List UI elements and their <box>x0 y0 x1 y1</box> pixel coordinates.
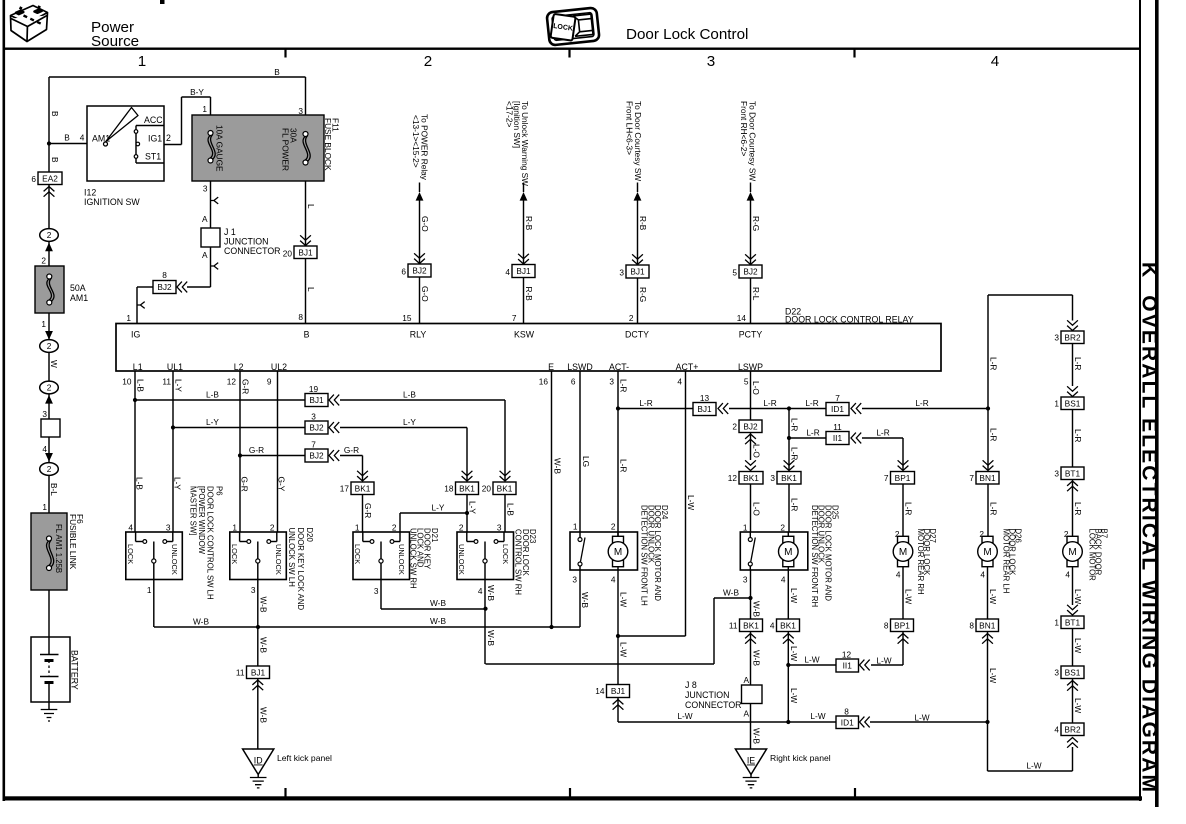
svg-text:L-Y: L-Y <box>206 417 219 427</box>
svg-text:LOCK: LOCK <box>353 544 362 564</box>
svg-text:BJ2: BJ2 <box>743 421 758 431</box>
svg-text:AM1: AM1 <box>70 293 88 303</box>
svg-text:BJ1: BJ1 <box>298 247 313 257</box>
svg-text:2: 2 <box>270 523 275 533</box>
svg-text:L-W: L-W <box>914 713 929 723</box>
svg-text:BJ1: BJ1 <box>309 395 324 405</box>
svg-text:L-W: L-W <box>1073 638 1083 653</box>
svg-text:AM1: AM1 <box>92 134 110 144</box>
svg-text:L-Y: L-Y <box>432 503 445 513</box>
svg-text:L-R: L-R <box>1073 502 1083 515</box>
svg-text:DOOR LOCK CONTROL RELAY: DOOR LOCK CONTROL RELAY <box>785 314 914 324</box>
svg-text:CONNECTOR: CONNECTOR <box>224 246 281 256</box>
svg-text:CONNECTOR: CONNECTOR <box>685 700 742 710</box>
svg-text:BT1: BT1 <box>1065 617 1081 627</box>
svg-text:3: 3 <box>374 586 379 596</box>
svg-text:BJ2: BJ2 <box>743 267 758 277</box>
svg-text:2: 2 <box>47 230 52 240</box>
svg-text:DCTY: DCTY <box>625 330 649 340</box>
svg-text:7: 7 <box>969 473 974 483</box>
svg-text:BJ1: BJ1 <box>611 686 626 696</box>
svg-text:1: 1 <box>232 523 237 533</box>
svg-text:4: 4 <box>770 621 775 631</box>
svg-text:1: 1 <box>202 104 207 114</box>
svg-text:G-R: G-R <box>344 445 359 455</box>
svg-text:JUNCTION: JUNCTION <box>685 690 729 700</box>
svg-text:UNLOCK SW RH: UNLOCK SW RH <box>408 528 417 589</box>
svg-text:FUSE BLOCK: FUSE BLOCK <box>323 118 333 171</box>
svg-text:L-W: L-W <box>686 495 696 510</box>
svg-text:BJ2: BJ2 <box>309 451 324 461</box>
svg-text:L: L <box>306 287 316 292</box>
svg-text:UL1: UL1 <box>167 362 183 372</box>
svg-text:4: 4 <box>505 267 510 277</box>
svg-text:G-O: G-O <box>420 216 430 232</box>
svg-text:IG1: IG1 <box>148 134 162 144</box>
svg-text:20: 20 <box>283 249 293 259</box>
svg-text:W-B: W-B <box>259 707 269 723</box>
svg-text:L-O: L-O <box>751 381 761 395</box>
svg-text:UNLOCK SW LH: UNLOCK SW LH <box>287 528 296 587</box>
svg-text:BT1: BT1 <box>1065 468 1081 478</box>
svg-text:DETECTION SW FRONT RH: DETECTION SW FRONT RH <box>810 505 819 607</box>
svg-text:8: 8 <box>298 312 303 322</box>
svg-text:Right kick panel: Right kick panel <box>770 753 831 763</box>
svg-text:10: 10 <box>122 377 132 387</box>
svg-text:BN1: BN1 <box>979 473 996 483</box>
svg-text:UNLOCK: UNLOCK <box>457 544 466 575</box>
svg-text:IE: IE <box>747 756 755 766</box>
svg-text:FL AM1 1.25B: FL AM1 1.25B <box>54 524 63 573</box>
svg-text:L-W: L-W <box>876 656 891 666</box>
svg-text:15: 15 <box>402 313 412 323</box>
svg-text:<17-2>: <17-2> <box>504 101 514 127</box>
svg-text:A: A <box>743 709 749 719</box>
svg-text:L-Y: L-Y <box>468 501 478 514</box>
svg-text:7: 7 <box>311 440 316 450</box>
svg-text:3: 3 <box>743 575 748 585</box>
svg-text:M: M <box>899 547 907 558</box>
svg-text:DETECTION SW FRONT LH: DETECTION SW FRONT LH <box>640 505 649 606</box>
svg-text:M: M <box>614 547 622 558</box>
svg-text:L-W: L-W <box>988 589 998 604</box>
svg-text:Door Lock Control: Door Lock Control <box>626 26 748 43</box>
svg-text:12: 12 <box>227 377 237 387</box>
svg-text:4: 4 <box>128 523 133 533</box>
svg-text:4: 4 <box>42 444 47 454</box>
svg-text:1: 1 <box>138 53 146 70</box>
svg-text:W-B: W-B <box>430 598 446 608</box>
svg-text:L-B: L-B <box>136 379 146 392</box>
svg-text:KSW: KSW <box>514 330 535 340</box>
svg-text:L-W: L-W <box>789 588 799 603</box>
svg-text:3: 3 <box>251 585 256 595</box>
svg-text:11: 11 <box>162 377 171 387</box>
svg-text:L2: L2 <box>234 362 244 372</box>
svg-text:2: 2 <box>1064 529 1069 539</box>
svg-text:E: E <box>548 362 554 372</box>
svg-text:50A: 50A <box>70 283 86 293</box>
svg-text:L-W: L-W <box>804 655 819 665</box>
svg-text:FL POWER: FL POWER <box>281 128 291 171</box>
svg-text:5: 5 <box>732 268 737 278</box>
svg-text:UNLOCK: UNLOCK <box>274 544 283 575</box>
svg-text:L-O: L-O <box>752 502 762 516</box>
svg-text:BK1: BK1 <box>780 620 796 630</box>
svg-text:M: M <box>784 547 792 558</box>
svg-text:2: 2 <box>895 529 900 539</box>
svg-text:Left kick panel: Left kick panel <box>277 753 332 763</box>
svg-text:L-R: L-R <box>639 398 652 408</box>
svg-text:18: 18 <box>444 484 454 494</box>
svg-text:16: 16 <box>539 377 549 387</box>
svg-text:W-B: W-B <box>486 630 496 646</box>
svg-text:L-W: L-W <box>619 592 629 607</box>
svg-text:A: A <box>743 675 749 685</box>
svg-text:L: L <box>306 204 316 209</box>
svg-text:11: 11 <box>833 422 842 432</box>
svg-text:B: B <box>274 67 280 77</box>
svg-text:W-B: W-B <box>430 616 446 626</box>
svg-text:2: 2 <box>41 256 46 266</box>
svg-text:G-R: G-R <box>363 503 373 518</box>
svg-text:3: 3 <box>619 268 624 278</box>
svg-text:J 1: J 1 <box>224 227 236 237</box>
svg-text:JUNCTION: JUNCTION <box>224 237 268 247</box>
svg-text:L-W: L-W <box>677 711 692 721</box>
svg-text:L1: L1 <box>133 362 143 372</box>
svg-text:L-R: L-R <box>915 398 928 408</box>
svg-text:B: B <box>50 157 60 163</box>
svg-text:3: 3 <box>707 53 715 70</box>
svg-text:2: 2 <box>166 133 171 143</box>
svg-text:R-B: R-B <box>638 216 648 231</box>
svg-text:BP1: BP1 <box>895 473 911 483</box>
svg-text:2: 2 <box>424 53 432 70</box>
svg-text:L-R: L-R <box>806 428 819 438</box>
svg-text:B: B <box>304 330 310 340</box>
svg-text:W-B: W-B <box>580 592 590 608</box>
svg-text:ID: ID <box>254 756 263 766</box>
svg-text:CONTROL SW RH: CONTROL SW RH <box>514 529 523 595</box>
svg-text:1: 1 <box>41 319 46 329</box>
svg-text:PCTY: PCTY <box>739 330 763 340</box>
svg-text:BJ2: BJ2 <box>157 282 172 292</box>
svg-text:2: 2 <box>392 523 397 533</box>
svg-text:W-B: W-B <box>752 601 762 617</box>
svg-text:2: 2 <box>732 422 737 432</box>
svg-text:19: 19 <box>309 384 319 394</box>
svg-text:BATTERY: BATTERY <box>70 650 80 690</box>
svg-text:L-W: L-W <box>1026 761 1041 771</box>
svg-text:20: 20 <box>482 484 492 494</box>
svg-text:BK1: BK1 <box>743 473 759 483</box>
svg-text:<13-1><15-2>: <13-1><15-2> <box>411 115 421 168</box>
svg-text:ST1: ST1 <box>145 152 161 162</box>
svg-text:MASTER SW]: MASTER SW] <box>189 486 198 535</box>
svg-text:W-B: W-B <box>259 597 269 613</box>
svg-text:G-R: G-R <box>240 477 250 492</box>
svg-text:G-R: G-R <box>249 445 264 455</box>
svg-text:L-O: L-O <box>752 444 762 458</box>
svg-text:2: 2 <box>47 341 52 351</box>
svg-text:1: 1 <box>1054 618 1059 628</box>
svg-text:2: 2 <box>611 522 616 532</box>
svg-text:L-W: L-W <box>789 688 799 703</box>
svg-text:FUSIBLE LINK: FUSIBLE LINK <box>68 514 78 570</box>
svg-text:W-B: W-B <box>486 585 496 601</box>
svg-text:W: W <box>49 360 59 368</box>
svg-text:L-R: L-R <box>790 447 800 460</box>
svg-text:BS1: BS1 <box>1065 398 1081 408</box>
svg-text:1: 1 <box>573 522 578 532</box>
svg-text:10A GAUGE: 10A GAUGE <box>215 125 225 172</box>
svg-text:14: 14 <box>737 313 747 323</box>
svg-text:W-B: W-B <box>752 650 762 666</box>
svg-text:1: 1 <box>126 313 131 323</box>
svg-text:B-Y: B-Y <box>190 87 204 97</box>
svg-text:1: 1 <box>42 502 47 512</box>
svg-text:8: 8 <box>844 707 849 717</box>
svg-text:L-R: L-R <box>763 398 776 408</box>
svg-text:BJ2: BJ2 <box>412 266 427 276</box>
svg-text:4: 4 <box>1065 570 1070 580</box>
svg-text:4: 4 <box>980 570 985 580</box>
svg-text:L-Y: L-Y <box>403 417 416 427</box>
svg-text:L-W: L-W <box>1073 589 1083 604</box>
svg-text:A: A <box>202 250 208 260</box>
svg-text:LOCK: LOCK <box>501 544 510 564</box>
svg-text:L-R: L-R <box>619 379 629 392</box>
svg-text:3: 3 <box>1054 469 1059 479</box>
svg-text:DOOR LOCK CONTROL SW LH: DOOR LOCK CONTROL SW LH <box>206 486 215 600</box>
svg-text:BJ1: BJ1 <box>251 667 266 677</box>
svg-text:J 8: J 8 <box>685 680 697 690</box>
svg-text:L-W: L-W <box>810 711 825 721</box>
svg-text:BK1: BK1 <box>497 483 513 493</box>
svg-text:4: 4 <box>781 575 786 585</box>
svg-text:L-R: L-R <box>805 398 818 408</box>
svg-text:BJ1: BJ1 <box>697 404 712 414</box>
svg-text:4: 4 <box>991 53 999 70</box>
svg-text:12: 12 <box>728 473 738 483</box>
svg-text:W-B: W-B <box>259 637 269 653</box>
svg-text:9: 9 <box>267 377 272 387</box>
svg-text:4: 4 <box>80 133 85 143</box>
svg-text:LOCK MOTOR: LOCK MOTOR <box>1088 529 1097 582</box>
svg-text:IG: IG <box>131 330 140 340</box>
svg-text:L-W: L-W <box>904 589 914 604</box>
svg-text:Front LH<6-3>: Front LH<6-3> <box>624 101 634 155</box>
svg-text:3: 3 <box>166 523 171 533</box>
svg-text:M: M <box>1068 547 1076 558</box>
svg-text:B-L: B-L <box>49 483 59 496</box>
svg-text:2: 2 <box>979 529 984 539</box>
svg-text:7: 7 <box>835 393 840 403</box>
svg-text:L-B: L-B <box>506 503 516 516</box>
svg-text:3: 3 <box>770 473 775 483</box>
svg-text:BK1: BK1 <box>743 620 759 630</box>
svg-text:L-Y: L-Y <box>174 379 184 392</box>
svg-text:3: 3 <box>1054 668 1059 678</box>
svg-text:BN1: BN1 <box>979 620 996 630</box>
svg-text:ACT-: ACT- <box>609 362 629 372</box>
svg-text:7: 7 <box>512 313 517 323</box>
svg-text:UL2: UL2 <box>271 362 287 372</box>
svg-text:6: 6 <box>31 174 36 184</box>
svg-text:W-B: W-B <box>752 728 762 744</box>
svg-text:BJ1: BJ1 <box>630 267 645 277</box>
svg-text:L-B: L-B <box>206 390 219 400</box>
svg-text:W-B: W-B <box>723 588 739 598</box>
svg-text:W-B: W-B <box>193 617 209 627</box>
svg-text:BJ2: BJ2 <box>309 423 324 433</box>
svg-text:MOTOR REAR LH: MOTOR REAR LH <box>1002 529 1011 594</box>
svg-text:R-B: R-B <box>524 216 534 231</box>
svg-text:B: B <box>50 111 60 117</box>
svg-text:11: 11 <box>729 621 738 631</box>
svg-text:ACT+: ACT+ <box>676 362 699 372</box>
svg-text:BK1: BK1 <box>781 473 797 483</box>
svg-text:MOTOR REAR RH: MOTOR REAR RH <box>916 529 925 595</box>
svg-text:ID1: ID1 <box>841 717 854 727</box>
svg-text:LOCK: LOCK <box>230 544 239 564</box>
svg-text:LSWP: LSWP <box>738 362 763 372</box>
svg-text:BR2: BR2 <box>1064 332 1081 342</box>
svg-text:Source: Source <box>91 33 139 50</box>
svg-text:L-R: L-R <box>790 498 800 511</box>
svg-text:6: 6 <box>571 377 576 387</box>
svg-text:L-B: L-B <box>403 390 416 400</box>
svg-text:13: 13 <box>700 393 710 403</box>
svg-text:3: 3 <box>298 106 303 116</box>
svg-text:L-R: L-R <box>989 357 999 370</box>
svg-text:L-W: L-W <box>619 642 629 657</box>
svg-text:8: 8 <box>884 621 889 631</box>
svg-text:L-R: L-R <box>1073 357 1083 370</box>
svg-text:L-W: L-W <box>1073 698 1083 713</box>
svg-text:K OVERALL ELECTRICAL WIRING D: K OVERALL ELECTRICAL WIRING DIAGRAM <box>1138 262 1161 792</box>
svg-text:1: 1 <box>147 585 152 595</box>
svg-text:L-R: L-R <box>619 459 629 472</box>
svg-text:BS1: BS1 <box>1065 667 1081 677</box>
svg-text:ID1: ID1 <box>831 404 844 414</box>
svg-text:2: 2 <box>629 313 634 323</box>
svg-text:1: 1 <box>355 523 360 533</box>
svg-text:1: 1 <box>743 523 748 533</box>
svg-text:5: 5 <box>744 377 749 387</box>
svg-text:BP1: BP1 <box>894 620 910 630</box>
svg-text:L-R: L-R <box>790 418 800 431</box>
svg-text:8: 8 <box>162 270 167 280</box>
svg-text:BK1: BK1 <box>355 483 371 493</box>
svg-text:2: 2 <box>47 464 52 474</box>
svg-text:LSWD: LSWD <box>567 362 592 372</box>
svg-text:II1: II1 <box>843 661 853 671</box>
svg-text:W-B: W-B <box>553 458 563 474</box>
svg-text:BJ1: BJ1 <box>516 266 531 276</box>
svg-text:L-W: L-W <box>789 646 799 661</box>
svg-text:3: 3 <box>497 523 502 533</box>
svg-text:M: M <box>983 547 991 558</box>
svg-text:R-G: R-G <box>638 287 648 302</box>
svg-text:L-R: L-R <box>989 502 999 515</box>
svg-text:3: 3 <box>203 184 208 194</box>
svg-text:17: 17 <box>340 484 350 494</box>
svg-text:R-G: R-G <box>751 216 761 231</box>
svg-text:8: 8 <box>969 621 974 631</box>
svg-text:G-O: G-O <box>420 286 430 302</box>
svg-text:3: 3 <box>311 412 316 422</box>
svg-text:G-Y: G-Y <box>277 477 287 492</box>
svg-text:LOCK: LOCK <box>126 544 135 564</box>
svg-text:6: 6 <box>401 267 406 277</box>
svg-text:R-L: R-L <box>751 287 761 301</box>
svg-text:1: 1 <box>1054 399 1059 409</box>
svg-text:12: 12 <box>842 650 852 660</box>
svg-text:14: 14 <box>595 686 605 696</box>
svg-text:G-R: G-R <box>241 379 251 394</box>
svg-text:ACC: ACC <box>144 115 163 125</box>
svg-text:L-R: L-R <box>989 428 999 441</box>
svg-text:D20: D20 <box>305 528 314 543</box>
svg-text:A: A <box>202 214 208 224</box>
svg-text:3: 3 <box>1054 333 1059 343</box>
svg-text:3: 3 <box>572 575 577 585</box>
svg-text:3: 3 <box>42 409 47 419</box>
svg-text:L-R: L-R <box>904 502 914 515</box>
svg-text:7: 7 <box>884 473 889 483</box>
svg-text:L-B: L-B <box>135 477 145 490</box>
svg-text:IGNITION SW: IGNITION SW <box>84 197 140 207</box>
svg-text:4: 4 <box>896 570 901 580</box>
svg-text:4: 4 <box>478 586 483 596</box>
svg-text:UNLOCK: UNLOCK <box>397 544 406 575</box>
svg-text:P6: P6 <box>215 486 224 496</box>
svg-text:BR2: BR2 <box>1064 724 1081 734</box>
svg-text:L-W: L-W <box>988 668 998 683</box>
svg-text:L-R: L-R <box>876 428 889 438</box>
svg-text:4: 4 <box>611 575 616 585</box>
svg-text:2: 2 <box>459 523 464 533</box>
svg-text:3: 3 <box>609 377 614 387</box>
svg-text:L-Y: L-Y <box>173 477 183 490</box>
svg-text:II1: II1 <box>833 433 843 443</box>
svg-text:R-B: R-B <box>524 287 534 302</box>
svg-text:BK1: BK1 <box>459 483 475 493</box>
svg-text:B: B <box>64 133 70 143</box>
svg-text:LG: LG <box>581 456 591 467</box>
svg-text:4: 4 <box>677 377 682 387</box>
svg-text:2: 2 <box>47 383 52 393</box>
svg-text:Front RH<6-2>: Front RH<6-2> <box>739 101 749 156</box>
svg-text:4: 4 <box>1054 725 1059 735</box>
svg-text:L-R: L-R <box>1073 429 1083 442</box>
svg-text:DOOR KEY LOCK AND: DOOR KEY LOCK AND <box>296 528 305 611</box>
svg-text:11: 11 <box>236 668 245 678</box>
svg-text:EA2: EA2 <box>42 173 58 183</box>
svg-text:RLY: RLY <box>410 330 427 340</box>
svg-text:2: 2 <box>780 523 785 533</box>
svg-text:UNLOCK: UNLOCK <box>170 544 179 575</box>
